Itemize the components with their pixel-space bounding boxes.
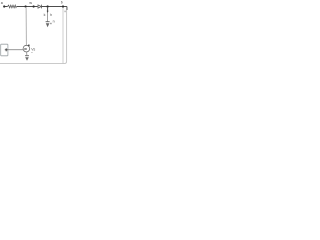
svg-text:h: h bbox=[50, 13, 52, 17]
svg-text:k: k bbox=[44, 13, 46, 17]
svg-text:n: n bbox=[53, 20, 55, 24]
svg-text:b: b bbox=[61, 0, 63, 4]
svg-text:Vs: Vs bbox=[31, 47, 35, 51]
svg-text:w: w bbox=[29, 1, 32, 5]
svg-text:a: a bbox=[1, 1, 3, 5]
